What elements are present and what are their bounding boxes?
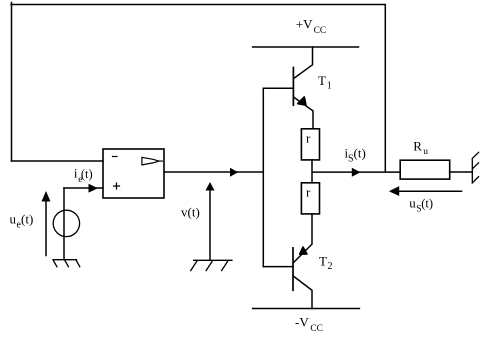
transistor Q1 emitter arrow bbox=[298, 97, 306, 105]
op-amp inverting input minus sign bbox=[113, 156, 118, 158]
transistor Q1 bar bbox=[292, 68, 294, 106]
arrowhead v(t) bbox=[206, 182, 215, 191]
op-amp non-inverting input plus sign bbox=[114, 183, 120, 189]
arrow ue(t) bbox=[45, 201, 47, 256]
chassis wall bbox=[472, 152, 478, 183]
wire Ru to wall bbox=[450, 171, 473, 173]
transistor Q2 emitter arrow bbox=[300, 247, 307, 254]
power rail +Vcc bbox=[253, 46, 359, 48]
arrowhead op-amp output bbox=[230, 168, 238, 177]
power rail -Vcc bbox=[253, 308, 360, 310]
ground v(t) bbox=[191, 260, 232, 270]
arrow us(t) line bbox=[399, 190, 462, 192]
ground source bbox=[53, 260, 80, 267]
svg-text:(t): (t) bbox=[421, 197, 433, 211]
svg-text:1: 1 bbox=[327, 81, 332, 92]
svg-text:(t): (t) bbox=[81, 167, 93, 181]
wire source to ground bbox=[63, 188, 65, 260]
op-amp gain triangle symbol bbox=[142, 157, 163, 165]
svg-text:T: T bbox=[318, 73, 326, 88]
svg-text:CC: CC bbox=[314, 26, 327, 36]
svg-text:T: T bbox=[319, 253, 327, 268]
svg-text:u: u bbox=[10, 212, 17, 227]
svg-text:r: r bbox=[306, 131, 311, 146]
arrow v(t) line bbox=[209, 191, 211, 261]
wire op-amp output bbox=[164, 171, 263, 173]
transistor Q2 bar bbox=[292, 248, 294, 290]
resistor Ru bbox=[400, 160, 450, 179]
resistor r1 bbox=[301, 129, 319, 160]
svg-text:(t): (t) bbox=[354, 146, 366, 161]
arrowhead is(t) bbox=[352, 168, 361, 177]
wire base T1 bbox=[263, 87, 293, 89]
source circle bbox=[53, 210, 79, 236]
arrowhead us(t) bbox=[389, 186, 399, 196]
wire r1 to r2 bbox=[311, 160, 313, 183]
arrowhead ue(t) bbox=[42, 191, 51, 202]
op-amp U1 bbox=[103, 149, 164, 198]
svg-text:R: R bbox=[413, 139, 422, 154]
svg-text:v(t): v(t) bbox=[181, 205, 200, 220]
transistor Q1 collector bbox=[294, 47, 313, 78]
svg-text:u: u bbox=[423, 147, 428, 157]
svg-text:-V: -V bbox=[295, 314, 309, 329]
svg-text:r: r bbox=[306, 185, 311, 200]
transistor Q1 emitter bbox=[294, 97, 313, 129]
wire base T2 bbox=[263, 266, 293, 268]
wire r2 to T2 emitter bbox=[294, 214, 312, 262]
svg-text:(t): (t) bbox=[21, 212, 33, 227]
svg-text:2: 2 bbox=[328, 261, 333, 272]
node base bus bbox=[262, 88, 264, 266]
arrowhead ie(t) bbox=[89, 184, 99, 193]
svg-text:CC: CC bbox=[310, 324, 323, 334]
resistor r2 bbox=[301, 183, 319, 214]
svg-text:+V: +V bbox=[296, 16, 313, 31]
transistor Q2 collector bbox=[294, 276, 313, 308]
wire inverting input bbox=[12, 160, 104, 162]
wire non-inverting input bbox=[64, 187, 103, 189]
wire feedback top bbox=[11, 3, 385, 173]
wire output node bbox=[312, 171, 400, 173]
